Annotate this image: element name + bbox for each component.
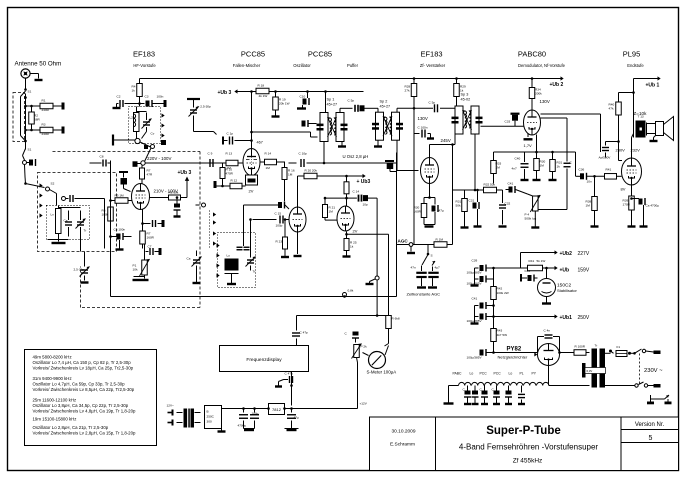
svg-text:T 13: T 13	[638, 115, 644, 119]
label 8V	[621, 187, 626, 192]
wire mains top	[646, 351, 654, 352]
ground R19	[272, 110, 280, 117]
ground R38	[591, 211, 599, 227]
resistor R43 filter	[491, 317, 507, 353]
capacitor filter tap	[70, 195, 105, 249]
regulator 7812	[267, 404, 286, 415]
svg-text:Oszillator Lo 7,4 µH, Ca 150 p: Oszillator Lo 7,4 µH, Ca 150 p, Cp 82 p,…	[33, 360, 132, 365]
label +Ub 159V	[555, 266, 590, 274]
svg-text:C39: C39	[472, 259, 478, 263]
chassis box mixer-osc	[111, 153, 397, 297]
capacitor C23 elko	[238, 407, 249, 428]
black capacitor C1	[27, 159, 36, 166]
ground trimmer lower	[81, 281, 89, 283]
tube V3a PCC85 osc triode	[337, 206, 354, 231]
svg-text:Endstufe: Endstufe	[627, 63, 644, 68]
svg-text:+Ub 3: +Ub 3	[218, 90, 232, 96]
svg-text:245V: 245V	[441, 138, 451, 143]
wire x452 Tr3	[452, 145, 454, 245]
svg-text:470R: 470R	[226, 172, 234, 176]
svg-text:20k 1W: 20k 1W	[279, 102, 290, 106]
svg-text:Tr: Tr	[84, 229, 87, 233]
svg-text:45+27: 45+27	[327, 103, 338, 107]
svg-text:PABC80: PABC80	[518, 50, 546, 59]
tube V1 EF183 RF pentode	[132, 184, 150, 210]
wire plate supply EF183	[139, 79, 141, 84]
capacitor C24 elko	[250, 407, 259, 428]
label +Ub 1	[646, 83, 660, 89]
contact RF out	[151, 145, 155, 149]
svg-text:31m 9400-9900 kHz: 31m 9400-9900 kHz	[33, 376, 72, 381]
svg-text:1M: 1M	[496, 166, 501, 170]
svg-text:50k: 50k	[456, 204, 461, 208]
supply line Ub1	[494, 316, 555, 318]
svg-text:100n: 100n	[157, 95, 164, 99]
svg-text:Netzgleichrichter: Netzgleichrichter	[498, 355, 528, 360]
svg-text:1M: 1M	[266, 166, 271, 170]
filter capacitor C39	[467, 259, 494, 275]
black capacitor C33 det	[505, 114, 520, 127]
heater cap 1	[463, 386, 472, 405]
label Sp 1	[327, 98, 338, 107]
label Stabilisator	[557, 288, 577, 293]
svg-text:1k: 1k	[132, 89, 136, 93]
potentiometer P4 volume	[530, 195, 540, 212]
contact filter in	[46, 182, 55, 192]
capacitor C29 series	[397, 101, 458, 113]
svg-text:2V: 2V	[353, 229, 358, 234]
capacitor C9 coupling	[208, 152, 214, 168]
resistor R33	[491, 152, 502, 184]
heater cap 1b	[472, 386, 479, 405]
svg-text:Lv: Lv	[51, 213, 55, 217]
svg-text:227V: 227V	[578, 251, 590, 257]
resistor R21 osc grid	[323, 197, 347, 220]
svg-text:Demodulator, Nf-Vorstufe: Demodulator, Nf-Vorstufe	[518, 63, 566, 68]
svg-text:Ca: Ca	[64, 219, 68, 223]
capacitor C22 display	[284, 372, 294, 387]
svg-text:R41: R41	[606, 168, 612, 172]
svg-text:160R: 160R	[147, 236, 155, 240]
terminal mains N	[654, 384, 661, 388]
svg-text:Vorkreis/ Zwischenkreis Lv 8,5: Vorkreis/ Zwischenkreis Lv 8,5µH, Ca 22p…	[33, 387, 135, 392]
label +Ub 3 top	[218, 90, 232, 96]
label Sp 2	[380, 100, 391, 109]
capacitor screen row	[141, 218, 164, 228]
supply PL95	[632, 79, 657, 121]
label Zf-Verstaerker	[420, 63, 446, 68]
svg-text:C36: C36	[579, 168, 585, 172]
label S-Meter	[367, 370, 397, 375]
capacitor C17 osc coil	[237, 247, 250, 250]
svg-text:250V: 250V	[578, 315, 590, 321]
resistor R35	[534, 151, 546, 171]
svg-text:R 6k8: R 6k8	[392, 317, 400, 321]
svg-text:+Ub 2: +Ub 2	[550, 82, 564, 88]
svg-text:C32: C32	[505, 202, 511, 206]
wire osc coil to line	[323, 142, 326, 165]
svg-text:S-Meter 100µA: S-Meter 100µA	[367, 370, 397, 375]
svg-text:Vorkreis/ Zwischenkreis Lv 2,8: Vorkreis/ Zwischenkreis Lv 2,8µH, Ca 15p…	[33, 430, 137, 435]
svg-text:Puffer: Puffer	[347, 63, 359, 68]
black capacitor screen bypass	[174, 196, 181, 216]
svg-text:B: B	[207, 410, 209, 414]
dashed box RF section outline	[53, 152, 201, 308]
label +Ub 2	[550, 82, 564, 88]
output transformer Tr4	[634, 115, 647, 138]
black capacitor C41 pot	[506, 182, 536, 198]
black capacitor C10	[300, 90, 310, 105]
mixer signal line	[145, 162, 243, 164]
ground AGC contact	[407, 252, 415, 254]
subtitle 4-Band	[459, 443, 599, 452]
dashed box RF band filter	[38, 173, 117, 252]
contact osc coil line	[196, 203, 206, 207]
capacitor C27 screen	[414, 126, 431, 138]
resistor R14 mixer right	[260, 152, 285, 171]
ground P4	[531, 211, 539, 228]
fuse F1	[609, 345, 631, 357]
svg-text:R3: R3	[42, 123, 46, 127]
svg-text:25m 11600-12100 kHz: 25m 11600-12100 kHz	[33, 398, 77, 403]
ground C27	[427, 134, 434, 139]
resistor R6 screen	[102, 199, 114, 221]
version number	[649, 435, 653, 442]
resistor R41 5k	[528, 259, 546, 271]
svg-text:C 9: C 9	[208, 152, 213, 156]
ground C25	[285, 429, 299, 431]
wire Ub3 to osc coil	[325, 92, 327, 113]
wire PL95 plate	[632, 134, 634, 159]
svg-text:PCC: PCC	[480, 372, 488, 376]
arrow +Ub2	[413, 76, 564, 80]
label Z=10k	[634, 111, 648, 116]
label PABC80	[518, 50, 546, 59]
tube 150C2 stabilizer	[538, 268, 556, 297]
svg-text:HF-Vorstufe: HF-Vorstufe	[133, 63, 156, 68]
svg-text:C33: C33	[505, 120, 511, 124]
svg-text:130V: 130V	[540, 99, 550, 104]
svg-text:220V - 100V: 220V - 100V	[147, 156, 171, 161]
capacitor Ca filter	[64, 211, 73, 237]
svg-text:PCC: PCC	[494, 372, 502, 376]
svg-text:Fallen-Mischer: Fallen-Mischer	[233, 63, 261, 68]
trimmer C5 RF	[187, 99, 211, 132]
resistor mixer left	[220, 163, 234, 186]
svg-text:1M: 1M	[288, 173, 293, 177]
wire R4 down	[139, 97, 141, 104]
svg-text:EF183: EF183	[420, 50, 442, 59]
svg-text:30.10.2009: 30.10.2009	[391, 429, 415, 435]
svg-text:Oszillator: Oszillator	[293, 63, 311, 68]
ground C2	[113, 104, 121, 109]
resistor R36	[550, 151, 563, 172]
ground osc coil	[225, 274, 239, 285]
svg-text:4k7 5W: 4k7 5W	[497, 333, 508, 337]
svg-text:2,5-30p: 2,5-30p	[74, 268, 85, 272]
svg-text:47k: 47k	[609, 107, 614, 111]
title block date	[391, 429, 415, 435]
svg-text:PL: PL	[520, 372, 524, 376]
ground rail	[218, 409, 226, 432]
resistor R31	[456, 190, 468, 212]
node divider top	[24, 105, 27, 108]
svg-text:S1: S1	[28, 148, 32, 152]
wire to R3	[26, 129, 41, 131]
capacitor C38 tone	[599, 140, 620, 159]
black capacitor C16 grid2	[244, 202, 290, 247]
ground C22 display	[275, 380, 284, 387]
svg-text:C 10p: C 10p	[299, 152, 308, 156]
svg-text:S2: S2	[51, 182, 55, 186]
resistor R17 supply	[256, 84, 269, 99]
coil Lv antenna	[51, 206, 62, 240]
svg-text:Lo: Lo	[470, 372, 474, 376]
label AGC	[398, 239, 409, 244]
wire R1 to terminal	[53, 105, 62, 107]
tube V5 PABC80	[524, 110, 541, 135]
label 130V IF	[418, 116, 428, 121]
filter capacitor C40	[467, 276, 494, 286]
black capacitor C36 grid	[579, 168, 605, 184]
label 220V - 100V	[147, 156, 171, 161]
switch S1a contact	[21, 91, 27, 142]
wire PY82 anode loop	[494, 352, 538, 354]
svg-text:500k log: 500k log	[525, 217, 537, 221]
ground band filter	[48, 240, 69, 244]
svg-text:R 23: R 23	[276, 240, 283, 244]
ground R31	[461, 212, 469, 228]
svg-text:467: 467	[257, 141, 263, 145]
resistor R29 IF plate	[454, 84, 466, 97]
svg-text:R 100R: R 100R	[575, 345, 586, 349]
svg-text:EF183: EF183	[133, 50, 155, 59]
label Zeitkonstante AGC	[407, 292, 441, 297]
svg-text:100p: 100p	[276, 224, 283, 228]
svg-text:100k 2W: 100k 2W	[497, 291, 509, 295]
wire display down	[291, 372, 293, 406]
resistor R44 surge	[574, 345, 586, 356]
resistor R7 cathode	[140, 210, 155, 245]
svg-text:PL95: PL95	[623, 50, 641, 59]
label EF183 (RF)	[133, 50, 155, 59]
ground Tr2 left	[374, 140, 382, 146]
svg-text:C31: C31	[469, 199, 475, 203]
arrow +Ub3 top	[234, 89, 237, 93]
ground 150C2	[542, 297, 551, 304]
svg-text:240R: 240R	[42, 108, 50, 112]
wire down to band filter	[25, 165, 26, 184]
svg-text:U Osz 2,8 µH: U Osz 2,8 µH	[343, 154, 369, 159]
svg-text:R42: R42	[497, 287, 503, 291]
wire counter feed	[297, 281, 378, 331]
svg-text:4n7: 4n7	[512, 167, 517, 171]
ground filter 1	[471, 279, 479, 286]
svg-text:Ap/500V: Ap/500V	[599, 156, 612, 160]
resistor R3	[40, 123, 53, 137]
wire grid line PL95	[576, 152, 581, 176]
audio line PABC	[494, 135, 576, 153]
switch arrows band select	[40, 183, 43, 217]
ground speaker	[650, 136, 658, 142]
label Fallen-Mischer	[233, 63, 261, 68]
potentiometer P1 gain	[133, 244, 150, 276]
svg-text:47R: 47R	[147, 173, 153, 177]
speaker LS1	[656, 117, 674, 141]
svg-text:C 47µ: C 47µ	[285, 372, 294, 376]
switch arrows RF coil	[162, 113, 165, 137]
svg-text:R 20 20k: R 20 20k	[305, 169, 318, 173]
resistor R5 grid V1	[111, 194, 132, 204]
resistor R25 under osc2b	[344, 232, 357, 251]
contact osc out	[375, 276, 379, 280]
capacitor C44 PY82	[538, 329, 560, 353]
wire R3 to terminal	[53, 129, 62, 131]
heater cap 4	[505, 386, 512, 405]
svg-text:10k: 10k	[133, 268, 138, 272]
tube V6 PL95 pentode	[622, 158, 642, 185]
wire screen feed x413	[413, 79, 415, 245]
resistor R13 grid mixer	[226, 152, 239, 171]
svg-text:C40: C40	[515, 157, 521, 161]
ground C6	[116, 240, 124, 250]
svg-text:C 4n: C 4n	[544, 329, 551, 333]
filter capacitor C41	[472, 297, 495, 310]
svg-text:250C: 250C	[207, 415, 215, 419]
svg-text:47µ: 47µ	[294, 416, 299, 420]
black capacitor C21 meter	[345, 332, 360, 343]
wire heater PY82	[548, 366, 550, 386]
black capacitor C37 cathode	[630, 197, 659, 207]
wire PY82 cathode	[558, 349, 574, 354]
svg-text:Zf 455kHz: Zf 455kHz	[513, 458, 543, 465]
svg-text:0,8k: 0,8k	[348, 289, 354, 293]
label PL95	[623, 50, 641, 59]
switch arrows osc upper	[213, 212, 216, 245]
svg-text:C6 100n: C6 100n	[114, 228, 126, 232]
svg-text:5: 5	[649, 435, 653, 442]
svg-text:P 2k: P 2k	[361, 345, 368, 349]
svg-text:6,3V: 6,3V	[587, 369, 593, 373]
power transformer Tr5	[592, 344, 606, 388]
node counter feed	[376, 314, 389, 317]
resistor R23 cath osc1	[276, 218, 298, 254]
capacitor C8 grid input	[90, 155, 111, 167]
capacitor neutralizing	[223, 132, 253, 145]
wire V4 plate	[430, 134, 456, 157]
label +Ub1 250V	[555, 314, 590, 321]
wire trimmer down	[194, 132, 217, 135]
svg-text:4k 1W: 4k 1W	[259, 94, 268, 98]
label HF-Vorstufe	[133, 63, 156, 68]
tube V2b PCC85 osc triode	[289, 207, 306, 232]
wire speaker bottom	[647, 133, 656, 135]
svg-text:PY: PY	[532, 372, 537, 376]
svg-text:Antenne 50 Ohm: Antenne 50 Ohm	[15, 61, 62, 68]
title Super-P-Tube	[486, 425, 561, 437]
capacitor C7 cathode	[143, 244, 162, 255]
svg-text:C 5p: C 5p	[429, 101, 436, 105]
black capacitor C11 osc	[302, 120, 317, 127]
filter capacitor C42	[467, 306, 495, 324]
svg-text:Zeitkonstante AGC: Zeitkonstante AGC	[407, 292, 441, 297]
svg-text:+Ub1: +Ub1	[560, 315, 573, 321]
svg-text:+12V: +12V	[360, 402, 368, 406]
resistor R34 PABC plate	[529, 88, 542, 99]
capacitor C34 af	[512, 152, 529, 171]
black capacitor C30 cathode	[428, 196, 444, 212]
transformer Tr1 oscillator	[317, 113, 348, 142]
resistor R38 grid leak	[586, 175, 598, 211]
label Puffer	[347, 63, 359, 68]
label +Ub3 right	[357, 179, 371, 185]
potentiometer P3 meter	[352, 337, 389, 359]
svg-text:F1: F1	[617, 345, 621, 349]
label 210V - 100V	[154, 189, 178, 194]
svg-text:47n: 47n	[411, 266, 416, 270]
supply line Ub3	[238, 90, 364, 93]
resistor R22 osc2 plate	[344, 176, 349, 199]
svg-text:Super-P-Tube: Super-P-Tube	[486, 425, 561, 437]
arrow +Ub3 mid	[185, 177, 189, 181]
coil Lo oscillator	[225, 254, 239, 271]
label 230V~	[644, 368, 663, 374]
svg-text:4µ7: 4µ7	[435, 266, 441, 270]
transformer mains small	[177, 409, 201, 428]
switch S2a	[633, 349, 646, 355]
ground osc out contact	[366, 279, 376, 284]
resistor R32 diode load	[453, 183, 503, 193]
cathode box mixer	[246, 175, 258, 185]
svg-text:R 1M: R 1M	[436, 238, 444, 242]
dotted box RF plate coil	[129, 107, 161, 144]
svg-text:Tr: Tr	[595, 344, 598, 348]
svg-text:Vorkreis/ Zwischenkreis Lv 18µ: Vorkreis/ Zwischenkreis Lv 18µH, Ca 25p,…	[33, 366, 134, 371]
heater labels	[453, 372, 537, 376]
supply line Ub	[543, 267, 555, 270]
resistor screen feed	[150, 191, 181, 201]
black capacitor C6 screen	[109, 228, 131, 241]
ground PABC cathode	[524, 133, 533, 139]
terminal grid cap	[119, 172, 128, 178]
svg-text:Sp 1: Sp 1	[327, 98, 335, 102]
terminal coil left	[113, 135, 135, 146]
resistor R20 osc plate	[298, 169, 318, 208]
capacitor C12 osc line	[289, 152, 397, 168]
terminal cathode line	[214, 181, 217, 188]
wire coil top bus	[59, 207, 81, 209]
node box bottom contact	[343, 293, 347, 298]
ground antenna	[35, 79, 43, 81]
svg-text:C44: C44	[525, 269, 531, 273]
heater winding cap	[582, 363, 606, 378]
label U Osz	[343, 154, 369, 159]
node R17 out	[274, 90, 277, 93]
box Frequenzdisplay	[220, 346, 309, 372]
svg-text:+ Ub3: + Ub3	[357, 179, 371, 185]
svg-text:Stabilisator: Stabilisator	[557, 288, 577, 293]
svg-text:10p: 10p	[363, 203, 368, 207]
dotted box antenna coil	[47, 206, 90, 240]
subtitle Zf	[513, 458, 543, 465]
svg-text:130V: 130V	[418, 116, 428, 121]
svg-text:R 13: R 13	[226, 152, 233, 156]
power rail 12V	[222, 408, 358, 410]
resistor R15b	[282, 162, 295, 201]
svg-text:+Ub 3: +Ub 3	[178, 170, 192, 176]
svg-text:AGC: AGC	[398, 239, 409, 244]
resistor R2 vertical	[29, 105, 41, 132]
